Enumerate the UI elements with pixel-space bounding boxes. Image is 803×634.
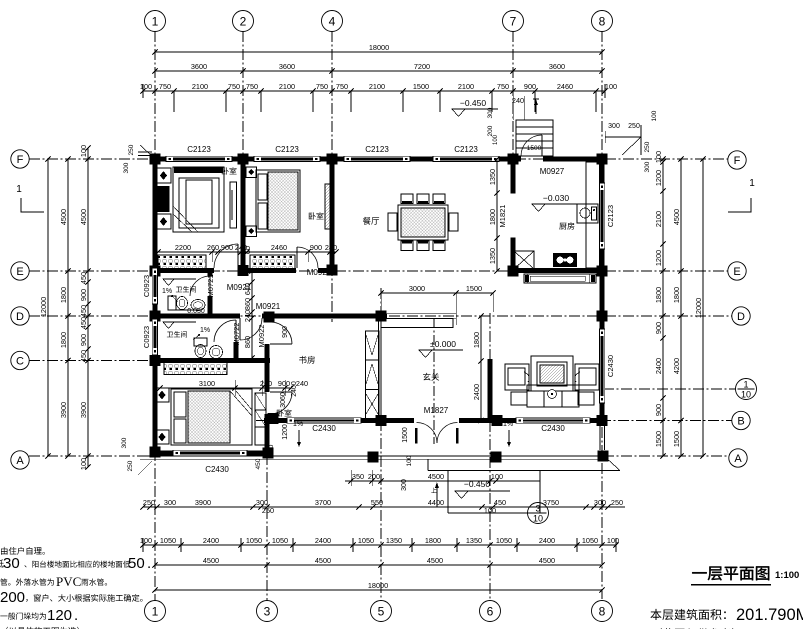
window C2430 right living <box>599 329 604 403</box>
window C2123 right kitchen <box>599 183 604 249</box>
grid line axis B horizontal <box>256 420 268 422</box>
door bedroom3 leaf+arc <box>270 392 292 414</box>
closet bedroom2 <box>250 255 295 269</box>
svg-text:900: 900 <box>79 334 88 346</box>
grid bubble 1/10 right <box>736 379 757 400</box>
bedroom1 dresser <box>158 186 170 212</box>
wall bedroom south A row <box>152 450 180 455</box>
svg-text:C2430: C2430 <box>205 465 229 474</box>
label bathroom1 <box>176 286 196 293</box>
svg-text:5: 5 <box>378 604 385 618</box>
svg-text:250: 250 <box>628 123 640 130</box>
svg-text:4500: 4500 <box>315 556 331 565</box>
svg-text:C0923: C0923 <box>142 275 151 297</box>
svg-text:900: 900 <box>654 322 663 334</box>
bedroom2 nightstand upper <box>246 167 257 178</box>
bathroom1 toilet <box>168 296 176 310</box>
svg-text:1%: 1% <box>200 327 210 334</box>
svg-text:1050: 1050 <box>246 536 262 545</box>
svg-text:750: 750 <box>228 82 240 91</box>
svg-text:3100: 3100 <box>199 379 215 388</box>
svg-text:50: 50 <box>128 555 145 572</box>
svg-text:1050: 1050 <box>582 536 598 545</box>
interior dim column living 1800/2400 <box>480 316 482 421</box>
svg-text:750: 750 <box>246 82 258 91</box>
door M0927 kitchen north leaf+arc <box>521 135 542 156</box>
svg-text:2460: 2460 <box>271 243 287 252</box>
top dimension row 3600/3600/7200/3600 <box>155 70 602 72</box>
svg-text:200: 200 <box>368 472 380 481</box>
grid line axis E horizontal <box>29 270 728 272</box>
svg-text:−0.030: −0.030 <box>543 193 570 203</box>
living tv wall unit <box>531 356 573 391</box>
grid line axis D horizontal <box>29 315 732 317</box>
svg-text:C2430: C2430 <box>541 424 565 433</box>
grid bubble B right <box>732 411 750 429</box>
svg-text:4500: 4500 <box>59 209 68 225</box>
bedroom3 bed <box>171 389 252 445</box>
top dimension row detail <box>143 90 605 92</box>
svg-text:1500: 1500 <box>402 427 409 443</box>
svg-text:100: 100 <box>79 458 88 470</box>
svg-text:M0927: M0927 <box>540 167 565 176</box>
svg-text:7: 7 <box>510 14 517 28</box>
wall exterior right axis 8 <box>599 156 604 190</box>
svg-text:M0922: M0922 <box>257 325 266 348</box>
door M0722 bathroom2 leaf+arc <box>214 320 236 342</box>
svg-text:450: 450 <box>255 458 262 469</box>
svg-text:1800: 1800 <box>488 209 497 225</box>
svg-text:900: 900 <box>79 289 88 301</box>
window C2123 top bay 4-7 east <box>433 156 499 161</box>
level mark bathroom2 <box>163 322 174 329</box>
svg-text:D: D <box>16 311 24 323</box>
label bedroom2 <box>309 212 324 219</box>
grid bubble 1 bottom <box>145 601 166 622</box>
svg-text:900: 900 <box>221 243 233 252</box>
svg-text:4500: 4500 <box>539 556 555 565</box>
svg-text:B: B <box>737 415 744 427</box>
foyer tall cabinet <box>366 331 380 419</box>
kitchen sink <box>577 204 598 223</box>
svg-text:3: 3 <box>264 604 271 618</box>
svg-text:−0.450: −0.450 <box>460 98 487 108</box>
svg-text:M0921: M0921 <box>307 268 332 277</box>
corner diagonal top-left <box>140 145 153 157</box>
kitchen bench below E wall <box>524 274 596 283</box>
svg-text:2400: 2400 <box>539 536 555 545</box>
window C2430 study south <box>287 418 361 423</box>
grid bubble 4 top <box>322 11 343 32</box>
wall axis 3 vertical <box>264 313 269 322</box>
svg-text:200: 200 <box>487 125 494 136</box>
svg-text:250: 250 <box>143 498 155 507</box>
svg-text:F: F <box>17 154 24 166</box>
svg-text:2: 2 <box>240 14 247 28</box>
svg-text:2400: 2400 <box>472 384 481 400</box>
svg-text:450: 450 <box>79 317 88 329</box>
svg-text:4400: 4400 <box>428 498 444 507</box>
porch platform edge bottom right <box>428 470 620 472</box>
living side table right <box>578 392 594 405</box>
svg-text:18000: 18000 <box>368 581 388 590</box>
interior dim foyer 3000/1500 <box>381 292 493 294</box>
svg-text:3750: 3750 <box>543 498 559 507</box>
svg-text:A: A <box>16 455 24 467</box>
svg-text:4500: 4500 <box>672 209 681 225</box>
bottom dimension witness lines <box>180 538 182 552</box>
svg-text:−0.450: −0.450 <box>464 479 491 489</box>
svg-text:3000: 3000 <box>409 284 425 293</box>
svg-text:D: D <box>737 311 745 323</box>
svg-text:10: 10 <box>533 514 543 524</box>
svg-text:100: 100 <box>484 506 496 515</box>
svg-text:1: 1 <box>749 178 755 189</box>
label dining room <box>363 217 379 225</box>
wall kitchen west axis 7 <box>510 159 515 193</box>
svg-text:C2123: C2123 <box>187 145 211 154</box>
svg-text:1%: 1% <box>503 421 513 428</box>
porch slab edge lines <box>140 455 605 457</box>
svg-text:1800: 1800 <box>425 536 441 545</box>
svg-text:1: 1 <box>16 184 22 195</box>
svg-text:1800: 1800 <box>654 287 663 303</box>
right dimension column detail <box>662 159 664 456</box>
entrance steps bottom <box>447 471 449 514</box>
left dimension column detail <box>87 148 89 467</box>
axis3 bottom small dims 350/200 <box>350 470 352 486</box>
kitchen stove <box>553 253 577 267</box>
svg-text:250: 250 <box>127 460 134 471</box>
svg-text:1050: 1050 <box>496 536 512 545</box>
svg-text:1800: 1800 <box>59 332 68 348</box>
svg-text:M1821: M1821 <box>498 205 507 228</box>
svg-text:1200: 1200 <box>282 424 289 440</box>
svg-text:2100: 2100 <box>458 82 474 91</box>
svg-text:C2123: C2123 <box>454 145 478 154</box>
svg-text:1050: 1050 <box>160 536 176 545</box>
svg-text:2100: 2100 <box>192 82 208 91</box>
grid bubble 5 bottom <box>371 601 392 622</box>
svg-text:C0923: C0923 <box>142 326 151 348</box>
entrance centerline <box>433 318 435 444</box>
bedroom3 nightstand left <box>155 388 169 402</box>
living sofa <box>527 385 579 407</box>
corner diagonal bottom-left <box>138 461 152 475</box>
svg-text:上: 上 <box>431 487 437 495</box>
grid line axis F horizontal <box>29 158 728 160</box>
grid bubble 8 bottom <box>592 601 613 622</box>
window C2123 top bay 4-7 west <box>344 156 410 161</box>
wall interior D row <box>152 313 240 318</box>
grid bubble C left <box>11 351 29 369</box>
wall axis 6 living partition <box>487 359 492 418</box>
svg-text:3600: 3600 <box>279 62 295 71</box>
bedroom1 nightstand lower <box>156 214 171 229</box>
svg-text:300: 300 <box>123 162 130 173</box>
label foyer <box>423 373 439 381</box>
svg-text:860: 860 <box>243 336 252 348</box>
wall bathroom1 partition <box>207 271 212 276</box>
svg-text:3900: 3900 <box>195 498 211 507</box>
svg-text:300: 300 <box>594 498 606 507</box>
svg-text:2200: 2200 <box>175 243 191 252</box>
svg-text:1800: 1800 <box>59 287 68 303</box>
svg-text:8: 8 <box>599 14 606 28</box>
svg-text:2400: 2400 <box>654 358 663 374</box>
svg-text:C2123: C2123 <box>275 145 299 154</box>
label bedroom3 <box>277 409 292 416</box>
svg-text:10: 10 <box>741 390 751 400</box>
note line 5 <box>0 612 46 619</box>
grid bubble 1 top <box>145 11 166 32</box>
grid line axis C horizontal <box>29 360 155 362</box>
grid line axis A horizontal <box>29 455 152 457</box>
svg-text:PVC: PVC <box>56 574 81 589</box>
door M0921 bedroom1 leaf+arc <box>214 244 238 268</box>
svg-text:100: 100 <box>491 472 503 481</box>
window C2430 living south <box>516 418 590 423</box>
svg-text:300: 300 <box>268 444 275 455</box>
svg-text:3900: 3900 <box>59 402 68 418</box>
svg-text:550: 550 <box>371 498 383 507</box>
porch edge lines axis8 B to A <box>599 424 601 450</box>
svg-text:.: . <box>74 607 78 624</box>
svg-text:640: 640 <box>243 283 252 295</box>
svg-text:100: 100 <box>654 151 663 163</box>
svg-text:8: 8 <box>599 604 606 618</box>
grid line axis 5 vertical <box>380 288 382 316</box>
svg-text:450: 450 <box>79 305 88 317</box>
svg-text:240: 240 <box>325 243 337 252</box>
svg-text:100: 100 <box>140 536 152 545</box>
svg-text:4500: 4500 <box>79 209 88 225</box>
wall axis 4 bedroom partition <box>329 159 334 271</box>
svg-text:100: 100 <box>651 110 658 121</box>
svg-text:2100: 2100 <box>369 82 385 91</box>
svg-text:200: 200 <box>0 589 25 606</box>
svg-text:900: 900 <box>310 243 322 252</box>
svg-text:M0921: M0921 <box>256 302 281 311</box>
foyer shoe cabinet below D beam <box>381 319 453 328</box>
svg-text:±0.000: ±0.000 <box>430 339 456 349</box>
svg-text:100: 100 <box>406 455 413 466</box>
grid line axis 6 vertical <box>489 313 491 599</box>
bedroom1 nightstand upper <box>156 168 171 183</box>
svg-text:300: 300 <box>164 498 176 507</box>
grid bubble 8 top <box>592 11 613 32</box>
living armchair left <box>505 364 529 390</box>
dining table with chairs <box>398 205 448 240</box>
bedroom1 bed <box>173 167 224 232</box>
interior dim row bedroom3 3100/260/900/240 <box>160 387 291 389</box>
svg-text:C2430: C2430 <box>606 355 615 377</box>
svg-text:12000: 12000 <box>694 298 703 318</box>
beam over foyer D row <box>387 313 456 315</box>
svg-text:250: 250 <box>262 506 274 515</box>
svg-text:100: 100 <box>605 82 617 91</box>
wall interior C row <box>152 358 270 363</box>
svg-text:1500: 1500 <box>654 431 663 447</box>
svg-text:18000: 18000 <box>369 43 389 52</box>
title floor area <box>650 609 726 620</box>
grid bubble A right <box>729 449 747 467</box>
grid bubble 3/10 bottom steps <box>528 503 549 524</box>
svg-text:100: 100 <box>140 82 152 91</box>
wall interior E row <box>152 268 214 273</box>
svg-text:1200: 1200 <box>654 170 663 186</box>
kitchen counter east <box>586 162 600 268</box>
svg-text:240: 240 <box>512 96 524 105</box>
svg-text:260: 260 <box>207 243 219 252</box>
grid line axis 2 vertical <box>242 31 244 276</box>
top dimension row 18000 <box>155 51 602 53</box>
svg-text:1050: 1050 <box>358 536 374 545</box>
svg-text:900: 900 <box>278 379 290 388</box>
svg-text:1350: 1350 <box>386 536 402 545</box>
grid bubble D right <box>732 307 750 325</box>
door M0922 study leaf+arc <box>270 322 292 344</box>
svg-text:1%: 1% <box>162 288 172 295</box>
window C2123 top bay 2-4 <box>254 156 320 161</box>
grid line axis 8 vertical <box>601 31 603 599</box>
svg-text:1500: 1500 <box>466 284 482 293</box>
wall exterior left <box>152 156 157 275</box>
wall axis 2 bedroom partition <box>240 159 245 271</box>
svg-text:250: 250 <box>644 141 651 152</box>
svg-text:4: 4 <box>329 14 336 28</box>
level mark bathroom1 <box>163 279 174 286</box>
svg-text:4500: 4500 <box>427 556 443 565</box>
svg-text:860: 860 <box>243 298 252 310</box>
bedroom2 nightstand lower <box>246 226 257 237</box>
wall foyer-study thin partition axis 5 <box>378 318 380 419</box>
svg-text:250: 250 <box>611 498 623 507</box>
svg-text:100: 100 <box>79 145 88 157</box>
steps up arrow bottom <box>436 483 438 507</box>
bottom dimension row 100/1050/2400... <box>143 544 616 546</box>
top dimension witness lines <box>173 91 175 112</box>
svg-text:3700: 3700 <box>315 498 331 507</box>
label study <box>299 356 315 364</box>
svg-text:.: . <box>147 555 151 572</box>
grid bubble F right <box>728 151 746 169</box>
svg-text:300: 300 <box>401 479 408 491</box>
svg-text:1500: 1500 <box>413 82 429 91</box>
svg-text:900: 900 <box>654 404 663 416</box>
kitchen porch up arrow <box>535 100 537 114</box>
svg-text:450: 450 <box>79 350 88 362</box>
right top drain structure <box>605 136 641 138</box>
svg-text:750: 750 <box>316 82 328 91</box>
svg-text:750: 750 <box>336 82 348 91</box>
right dimension column 4500/1800/4200/1500 <box>680 159 682 456</box>
svg-text:M1827: M1827 <box>424 406 449 415</box>
bottom dimension row 4500 x4 <box>155 564 602 566</box>
svg-text:1350: 1350 <box>466 536 482 545</box>
structural columns <box>150 154 161 165</box>
svg-text:A: A <box>734 453 742 465</box>
svg-text:1500: 1500 <box>672 431 681 447</box>
grid bubble 3 bottom <box>257 601 278 622</box>
svg-text:1:100: 1:100 <box>775 570 799 581</box>
bathroom2 toilet <box>194 338 207 346</box>
wall kitchen south E row <box>510 268 605 273</box>
svg-text:2100: 2100 <box>279 82 295 91</box>
svg-text:E: E <box>16 266 23 278</box>
svg-text:2100: 2100 <box>654 211 663 227</box>
grid bubble 7 top <box>503 11 524 32</box>
window C0923 left lower <box>152 319 157 355</box>
grid bubble D left <box>11 307 29 325</box>
bedroom2 wardrobe on axis4 wall <box>325 184 334 229</box>
living armchair right <box>575 364 599 390</box>
closet bedroom3 <box>164 362 227 375</box>
bottom dimension row porch 350/200/4500/100 <box>345 480 540 482</box>
label bathroom2 <box>167 331 187 338</box>
svg-text:1500: 1500 <box>527 145 542 152</box>
title first floor plan <box>692 566 769 580</box>
svg-text:C2123: C2123 <box>365 145 389 154</box>
svg-text:3600: 3600 <box>191 62 207 71</box>
bedroom3 wardrobe on axis3 wall <box>255 393 266 445</box>
wall bathroom2 partition <box>233 342 238 358</box>
door M0921 bedroom2 leaf+arc <box>297 247 318 268</box>
grid bubble 6 bottom <box>480 601 501 622</box>
bedroom2 bed <box>256 170 300 232</box>
svg-text:4500: 4500 <box>203 556 219 565</box>
bathroom1 sink <box>191 300 205 311</box>
svg-text:60: 60 <box>243 246 252 254</box>
left dimension column 12000 <box>47 159 49 456</box>
note line 6 clipped <box>6 627 79 634</box>
svg-text:1800: 1800 <box>672 287 681 303</box>
svg-text:1: 1 <box>152 604 159 618</box>
opening M1821 kitchen west <box>510 192 515 194</box>
grid bubble F left <box>11 150 29 168</box>
door M1827 double entrance leaf+arc <box>417 423 438 444</box>
interior dim column 60/640/860/240/860 <box>251 268 253 362</box>
note line 3 <box>0 578 54 585</box>
grid bubble A left <box>11 451 29 469</box>
svg-text:F: F <box>734 155 741 167</box>
svg-text:300: 300 <box>644 161 651 172</box>
living plant circle <box>548 390 557 399</box>
svg-text:900: 900 <box>282 326 289 338</box>
svg-text:750: 750 <box>497 82 509 91</box>
living side table left <box>511 392 527 405</box>
svg-text:7200: 7200 <box>414 62 430 71</box>
svg-text:300: 300 <box>487 107 494 118</box>
grid line axis 7 vertical <box>512 31 514 165</box>
svg-text:12000: 12000 <box>39 297 48 317</box>
svg-text:1800: 1800 <box>472 332 481 348</box>
grid line axis 4 vertical <box>331 31 333 322</box>
svg-text:2400: 2400 <box>315 536 331 545</box>
bathroom2 sink <box>210 346 223 359</box>
door M0921 hall to D wall leaf+arc <box>240 318 262 340</box>
wall exterior top F <box>152 156 173 161</box>
bedroom1 tv cabinet on axis2 wall <box>230 182 237 228</box>
svg-text:100: 100 <box>607 536 619 545</box>
right dimension column 12000 <box>702 159 704 456</box>
grid bubble E right <box>728 262 746 280</box>
svg-text:250: 250 <box>128 144 135 155</box>
svg-text:1350: 1350 <box>488 248 497 264</box>
svg-text:3060: 3060 <box>280 392 287 408</box>
grid line axis 1 vertical <box>154 31 156 162</box>
left dimension column 4500/1800/1800/3900 <box>67 159 69 456</box>
